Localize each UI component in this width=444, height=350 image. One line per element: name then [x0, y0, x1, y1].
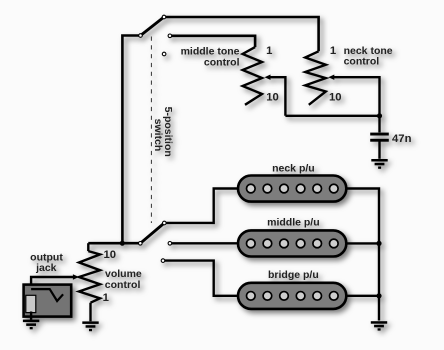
- wire: switch common riser: [122, 36, 141, 244]
- output jack tip contact: [31, 289, 63, 301]
- output jack sleeve terminal: [26, 295, 36, 312]
- svg-text:neck p/u: neck p/u: [272, 162, 315, 174]
- switch S1a contact 3 (unused): [162, 52, 166, 56]
- wire: volume pot top lead: [87, 243, 89, 251]
- svg-text:middle p/u: middle p/u: [267, 217, 320, 229]
- wire: switch B1 to neck pickup: [164, 189, 238, 223]
- pickup: neck poles: [247, 184, 339, 193]
- pickup: bridge poles: [247, 292, 339, 301]
- switch blade (top): [141, 17, 165, 36]
- wiper arrow volume: [73, 274, 79, 279]
- switch S1a contact 2 (middle tone): [168, 34, 172, 38]
- label: 5-position switch (rotated): [152, 107, 174, 157]
- wire: middle tone wiper to tone bus: [270, 77, 286, 116]
- ground: output jack: [23, 320, 39, 330]
- capacitor C1 47n plates: [370, 133, 389, 136]
- wire: capacitor top lead: [378, 116, 380, 133]
- wire: top contact 2 to middle tone pot terminal 1: [170, 36, 255, 47]
- svg-text:bridge p/u: bridge p/u: [268, 269, 319, 281]
- wire: volume pot bottom lead to ground: [89, 303, 91, 322]
- switch S1b contact 1 (neck p/u): [163, 221, 167, 225]
- wire: switch B2 to middle pickup: [170, 242, 238, 244]
- potentiometer R2 middle tone zigzag: [243, 47, 262, 105]
- potentiometer R3 neck tone zigzag: [305, 51, 326, 105]
- junction: tone bus at cap: [377, 113, 382, 118]
- junction: bridge pickup at ground bus: [376, 293, 381, 298]
- ground: pickup bus: [371, 321, 387, 330]
- svg-text:1: 1: [103, 292, 109, 304]
- svg-text:1: 1: [330, 45, 336, 57]
- wire: jack sleeve to ground lead: [30, 312, 32, 320]
- svg-text:1: 1: [266, 45, 272, 57]
- junction: middle pickup at ground bus: [376, 241, 381, 246]
- wire: output jack tip to volume wiper: [31, 277, 74, 289]
- ground: volume pot: [82, 321, 98, 331]
- output jack body: [24, 285, 72, 317]
- svg-text:10: 10: [104, 249, 117, 261]
- potentiometer R1 volume zigzag: [79, 251, 100, 303]
- svg-text:10: 10: [329, 91, 342, 103]
- wire: bridge pickup to ground bus: [346, 295, 379, 297]
- 5-position switch dashed axis: [150, 37, 152, 224]
- switch blade (bottom): [140, 223, 164, 243]
- svg-text:control: control: [344, 56, 380, 68]
- svg-text:47n: 47n: [392, 133, 412, 145]
- svg-text:control: control: [204, 56, 240, 68]
- wire: switch B3 to bridge pickup: [163, 261, 238, 296]
- pickup: middle p/u body: [238, 230, 346, 256]
- wiper arrow neck tone: [328, 75, 334, 80]
- svg-text:switch: switch: [152, 119, 164, 152]
- svg-text:10: 10: [266, 91, 279, 103]
- wiper arrow middle tone: [265, 75, 271, 80]
- wire: junction to volume pot terminal 10: [88, 242, 140, 245]
- junction: volume/switch common: [120, 241, 125, 246]
- switch S1b common contact: [139, 242, 143, 246]
- svg-text:jack: jack: [35, 262, 57, 274]
- wire: top contact 1 to neck tone pot terminal 1: [164, 17, 319, 51]
- svg-text:control: control: [105, 279, 141, 291]
- pickup: bridge p/u body: [238, 283, 346, 309]
- switch S1b contact 3 (bridge p/u): [161, 259, 165, 263]
- switch S1b contact 2 (middle p/u): [168, 242, 172, 246]
- switch S1a contact 1 (neck tone): [162, 15, 166, 19]
- pickup: neck p/u body: [238, 176, 346, 202]
- wire: middle pickup to ground bus: [346, 242, 379, 244]
- wire: capacitor bottom lead: [378, 141, 380, 158]
- wire: neck tone wiper to tone bus: [334, 77, 380, 116]
- wire: tone bus horizontal: [285, 115, 379, 117]
- switch S1a common contact: [139, 34, 143, 38]
- wire: neck pickup to ground bus: [346, 189, 379, 321]
- pickup: middle poles: [247, 239, 339, 248]
- ground: capacitor: [371, 159, 387, 169]
